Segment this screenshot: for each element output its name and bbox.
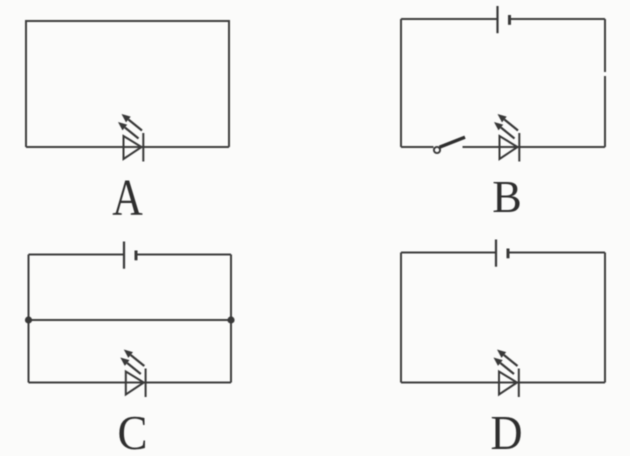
svg-text:A: A [112,170,143,227]
svg-text:B: B [492,172,522,222]
svg-text:C: C [118,405,148,456]
svg-text:D: D [491,405,523,456]
